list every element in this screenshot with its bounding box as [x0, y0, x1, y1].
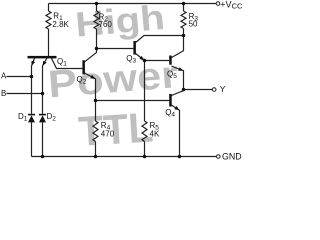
- svg-text:Y: Y: [220, 84, 226, 94]
- svg-text:2.8K: 2.8K: [52, 20, 69, 29]
- svg-text:GND: GND: [222, 151, 242, 161]
- svg-text:A: A: [1, 72, 7, 81]
- svg-text:50: 50: [189, 19, 198, 28]
- svg-text:760: 760: [99, 20, 113, 29]
- svg-text:4K: 4K: [150, 129, 160, 138]
- svg-text:470: 470: [101, 129, 115, 138]
- svg-text:+VCC: +VCC: [220, 0, 243, 10]
- svg-text:B: B: [1, 89, 6, 98]
- svg-text:TTL: TTL: [77, 103, 154, 155]
